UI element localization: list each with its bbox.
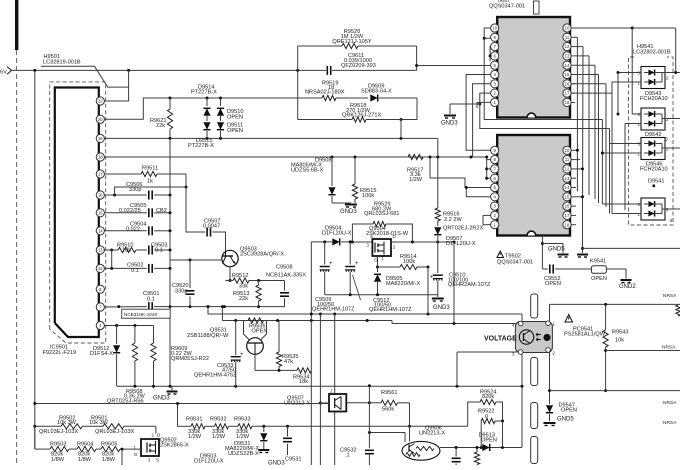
wire M2 output: [662, 118, 680, 120]
label NRSA right 2: [663, 400, 677, 406]
svg-text:12: 12: [565, 44, 570, 49]
IC9501 pin 16: [96, 191, 104, 199]
svg-text:SD883-04-X: SD883-04-X: [361, 88, 392, 94]
T9502 right pin 10: [563, 146, 571, 154]
wire Q9507 base col: [319, 314, 322, 465]
wire cap bottom rail: [170, 305, 285, 308]
T9502 right pin 15: [563, 193, 571, 201]
svg-text:NCB11AK-335X: NCB11AK-335X: [266, 273, 306, 279]
power input bar: [15, 0, 18, 50]
wire opto pin1 up: [549, 304, 551, 321]
wire T9501 pin4 stub: [466, 75, 491, 151]
wire mid rail to opto: [368, 384, 371, 387]
svg-text:15: 15: [565, 194, 570, 199]
svg-text:R9543: R9543: [612, 330, 628, 336]
wire left drop to bottom: [34, 70, 36, 449]
wire R9561 corner: [408, 403, 468, 428]
svg-text:MA8220/M/-X: MA8220/M/-X: [386, 281, 420, 287]
svg-text:0: 0: [485, 414, 488, 420]
T9501 left pin 2: [491, 89, 499, 97]
transformer T9501 body: [489, 0, 570, 118]
ground GND5 pair: [542, 244, 588, 258]
svg-text:QEHR1HM-476Z: QEHR1HM-476Z: [194, 372, 237, 378]
svg-text:OPEN: OPEN: [561, 408, 577, 414]
IC9501 pin 17: [96, 170, 104, 178]
wire main B+ rail: [12, 69, 417, 72]
diode D9505: [374, 267, 421, 295]
wire M3 pin3 feed: [610, 143, 642, 145]
wire T9502 right stubs: [571, 149, 584, 225]
wire Q9504 gate: [376, 256, 379, 269]
wire T9501 pin2 col: [480, 93, 610, 128]
svg-text:OPEN: OPEN: [481, 437, 497, 443]
capacitor C9508: [266, 265, 306, 307]
label NRSA right 0: [663, 293, 677, 299]
IC9501 pin 4: [96, 321, 104, 329]
wire Q9507 base stub: [320, 402, 329, 404]
wire D9504 feed: [310, 242, 313, 371]
svg-text:UDZS22B-X: UDZS22B-X: [228, 451, 259, 457]
svg-text:33k: 33k: [239, 284, 248, 290]
label NRSA right 3: [663, 420, 677, 426]
wire C9507 to Q9503: [212, 232, 225, 251]
diode D9515: [188, 122, 224, 149]
T9502 left pin 8: [491, 156, 499, 164]
svg-text:R9511: R9511: [142, 166, 158, 172]
label D9546: [640, 162, 668, 173]
resistor R9531: [186, 417, 205, 440]
resistor R9561: [369, 390, 409, 413]
svg-text:QQS0347-001: QQS0347-001: [497, 260, 533, 266]
ground GND3 left-mid: [332, 203, 357, 215]
resistor R9520: [298, 29, 417, 49]
wire T9501 pin8 stub: [484, 37, 490, 39]
svg-text:+: +: [240, 352, 244, 358]
svg-text:330p: 330p: [175, 288, 187, 294]
wire D9509 output down: [400, 120, 402, 139]
resistor R9522: [478, 409, 504, 448]
wire pin20 feedback: [104, 97, 297, 120]
svg-text:1/2W: 1/2W: [188, 434, 202, 440]
diode module D9546: [638, 138, 670, 160]
wire T9502 pins 8-7-6 bus: [485, 156, 490, 180]
wire R9503 rail: [35, 426, 50, 449]
svg-text:+: +: [430, 275, 434, 281]
diode D9514: [191, 85, 224, 121]
svg-text:OPEN: OPEN: [227, 114, 243, 120]
svg-text:NRSA: NRSA: [663, 400, 677, 406]
svg-text:10k: 10k: [615, 338, 624, 344]
resistor R9532: [205, 417, 229, 440]
wire Q9504 source rail: [351, 241, 373, 244]
T9501 left pin 8: [491, 33, 499, 41]
wire T9501 pin3 col: [473, 84, 491, 157]
T9502 left pin 9: [491, 146, 499, 154]
wire Q9531 top rail: [222, 319, 392, 322]
resistor R9501: [89, 415, 156, 435]
resistor R9508b: [151, 326, 156, 387]
dashed board boundary: [16, 50, 18, 465]
ground GND3 under C9510: [432, 299, 451, 312]
svg-text:12: 12: [98, 266, 103, 271]
T9501 right pin 15: [563, 70, 571, 78]
wire T9501 pin7 col: [489, 47, 492, 58]
svg-text:S: S: [370, 234, 373, 239]
resistor R9621: [150, 98, 173, 138]
wire opto vcc riser: [453, 242, 455, 324]
T9502 right pin 12: [563, 165, 571, 173]
IC9501 pin 7: [96, 303, 104, 311]
svg-text:QRL03EJ-103X: QRL03EJ-103X: [39, 429, 78, 435]
svg-text:QEHR1HM-107Z: QEHR1HM-107Z: [369, 307, 412, 313]
svg-text:D1FS4-X: D1FS4-X: [90, 351, 113, 357]
diode module D9543: [638, 67, 670, 89]
svg-text:D1FL20U-X: D1FL20U-X: [446, 241, 476, 247]
T9501 right pin 11: [563, 33, 571, 41]
connector H9541 dashed box: [629, 44, 674, 225]
transistor Q9531: [187, 321, 267, 355]
svg-text:T9501: T9501: [497, 0, 510, 3]
svg-text:F9222L-F219: F9222L-F219: [43, 350, 77, 356]
wire Q9503 emitter: [229, 267, 232, 282]
T9502 right pin 14: [563, 183, 571, 191]
svg-text:22k: 22k: [239, 296, 248, 302]
T9502 left pin 2: [491, 211, 499, 219]
svg-text:NCB31HK-104X: NCB31HK-104X: [124, 312, 157, 317]
wire module M1 pin1 feed: [612, 81, 641, 83]
svg-text:NRSA: NRSA: [663, 420, 677, 426]
svg-text:GND3: GND3: [441, 120, 458, 126]
T9501 left pin 10: [491, 24, 499, 32]
wire pin13 row: [104, 249, 113, 252]
capacitor C9503: [149, 242, 170, 254]
wire R9520 right leg: [415, 46, 418, 70]
transistor Q9506 oval: [402, 426, 445, 461]
IC9501 pin 18: [96, 153, 104, 161]
wire Q9507 collector col: [334, 314, 336, 465]
wire pin7 row: [104, 305, 146, 308]
capacitor C9505: [119, 203, 170, 217]
IC9501 pin 20: [96, 115, 104, 123]
svg-text:1/2W: 1/2W: [212, 434, 226, 440]
wire T9502 bottom drop: [541, 236, 544, 270]
svg-text:.1: .1: [345, 452, 350, 458]
svg-text:14: 14: [565, 185, 570, 190]
wire opto top rail: [550, 303, 680, 306]
svg-text:GND5: GND5: [557, 416, 574, 422]
wire R9522 down: [502, 421, 504, 448]
wire opto drop: [521, 314, 524, 448]
wire R9512 rail: [257, 279, 284, 282]
svg-text:R9533: R9533: [234, 417, 250, 423]
svg-text:C9531: C9531: [285, 456, 301, 462]
T9501 right pin 13: [563, 52, 571, 60]
T9502 left pin 3: [491, 202, 499, 210]
wire T9501 right pin3 drop: [571, 84, 606, 207]
resistor R9508a: [132, 326, 137, 387]
label NRSA right 1: [662, 345, 676, 351]
wire M2 pin1 feed: [625, 123, 641, 125]
T9501 right pin 14: [563, 61, 571, 69]
svg-text:22k: 22k: [156, 123, 165, 129]
T9501 right pin 17: [563, 89, 571, 97]
svg-text:17: 17: [98, 172, 103, 177]
T9502 left pin 1: [491, 221, 499, 229]
svg-text:13: 13: [565, 54, 570, 59]
svg-text:17: 17: [565, 91, 570, 96]
T9502 right pin 13: [563, 174, 571, 182]
svg-text:QRL03EJ-103X: QRL03EJ-103X: [95, 429, 134, 435]
svg-text:PS2581AL1/QW: PS2581AL1/QW: [564, 332, 606, 338]
svg-text:GND3: GND3: [340, 209, 357, 215]
label R9609: [171, 346, 209, 362]
svg-text:R9512: R9512: [232, 273, 248, 279]
wire Q9504 drain rail: [391, 241, 456, 244]
capacitor C9506: [126, 182, 170, 200]
diode D9512: [90, 326, 120, 387]
svg-text:10: 10: [565, 26, 570, 31]
capacitor C9510: [430, 242, 491, 297]
svg-text:16: 16: [565, 204, 570, 209]
svg-text:1/8W: 1/8W: [102, 457, 116, 463]
wire module bus d: [611, 82, 613, 214]
op-amp IC9501 body: [55, 88, 99, 338]
svg-text:560k: 560k: [382, 407, 394, 413]
svg-text:330p: 330p: [129, 187, 141, 193]
svg-text:0.022/25: 0.022/25: [119, 208, 141, 214]
svg-text:VOLTAGE: VOLTAGE: [484, 336, 517, 343]
svg-text:R9531: R9531: [186, 417, 202, 423]
wire K9541 to GND2: [606, 269, 626, 279]
svg-text:13: 13: [98, 248, 103, 253]
svg-text:+: +: [329, 261, 333, 267]
IC9501 pin 14: [96, 227, 104, 235]
wire pin18 rail: [104, 156, 487, 159]
svg-text:15: 15: [565, 72, 570, 77]
transistor Q9504: [366, 226, 409, 263]
capacitor C9532: [340, 386, 374, 465]
svg-text:10: 10: [492, 26, 497, 31]
wire opto pin4 rail: [392, 321, 519, 326]
ground GND3 under D9531: [258, 450, 285, 466]
resistor R9535: [276, 321, 298, 371]
wire M4 output: [662, 209, 680, 223]
capacitor C9520: [172, 260, 195, 307]
wire pin12 row: [104, 250, 146, 270]
capacitor C9534: [452, 448, 461, 466]
T9502 left pin 6: [491, 174, 499, 182]
wire Q9503 left row: [170, 259, 222, 262]
svg-text:14: 14: [98, 228, 103, 233]
svg-text:820k: 820k: [482, 394, 494, 400]
svg-text:S: S: [156, 458, 159, 463]
wire module output 1: [662, 28, 680, 74]
wire snubber loop: [298, 98, 417, 121]
svg-text:OPEN: OPEN: [545, 281, 561, 287]
svg-text:LC32802-001B: LC32802-001B: [633, 49, 671, 55]
wire Q9506 base rung: [368, 431, 405, 442]
svg-text:15: 15: [98, 210, 103, 215]
diode module D9542: [638, 108, 670, 130]
IC9501 pin 13: [96, 246, 104, 254]
wire pin4 row: [104, 324, 153, 327]
capacitor C9512: [345, 242, 360, 300]
resistor R9518: [298, 103, 401, 122]
svg-text:PT227B-X: PT227B-X: [188, 143, 214, 149]
svg-text:16: 16: [98, 193, 103, 198]
diode D9513: [479, 432, 497, 451]
wire feedback rail: [207, 305, 523, 315]
label PC9541: [564, 315, 606, 338]
svg-text:GND3: GND3: [433, 305, 450, 311]
wire module bus a: [617, 73, 619, 115]
svg-text:11: 11: [565, 157, 570, 162]
svg-text:OPEN: OPEN: [591, 276, 607, 282]
resistor R9514: [378, 254, 430, 270]
wire Q9506 collector: [409, 426, 411, 441]
wire pin15 row: [104, 212, 146, 214]
svg-text:QRL03SJ-681: QRL03SJ-681: [364, 211, 399, 217]
wire rail link: [221, 305, 224, 320]
diode D9547: [546, 403, 577, 422]
resistor R9515: [352, 157, 376, 203]
svg-text:FCH20A10: FCH20A10: [640, 96, 668, 102]
T9502 right pin 11: [563, 156, 571, 164]
wire sec gnd rail: [581, 212, 680, 250]
svg-text:PT227B-X: PT227B-X: [191, 90, 217, 96]
svg-text:+: +: [355, 261, 359, 267]
svg-text:18: 18: [565, 100, 570, 105]
wire pin22 to B+: [104, 70, 128, 101]
T9501 left pin 5: [491, 61, 499, 69]
svg-text:QFZ0209-393: QFZ0209-393: [341, 63, 376, 69]
diode D9510: [203, 98, 243, 121]
svg-text:2SB1188/QR/-W: 2SB1188/QR/-W: [187, 333, 229, 339]
svg-text:1/8W: 1/8W: [51, 457, 65, 463]
label C9512: [369, 298, 412, 313]
wire T9501 right pin2 drop: [571, 92, 612, 94]
svg-text:QQS0347-001: QQS0347-001: [489, 3, 525, 9]
svg-text:22: 22: [98, 99, 103, 104]
ground GND3 top: [441, 103, 481, 127]
optocoupler PC9541: [512, 321, 556, 357]
relay K9541: [590, 258, 607, 282]
resistor R9516: [435, 157, 483, 231]
svg-text:0.0047: 0.0047: [203, 224, 220, 230]
svg-text:QRM05SJ-R22: QRM05SJ-R22: [171, 356, 209, 362]
wire T9501 pin6 col: [489, 56, 491, 61]
diode D9507: [434, 221, 476, 247]
svg-text:QRK126J-271X: QRK126J-271X: [342, 113, 381, 119]
svg-text:0.1: 0.1: [131, 268, 139, 274]
wire T9501 pin1 stub: [477, 102, 491, 108]
svg-text:100k: 100k: [362, 193, 374, 199]
T9502 right pin 16: [563, 202, 571, 210]
wire R9534 down: [310, 370, 312, 465]
svg-text:QRE121J-105Y: QRE121J-105Y: [332, 39, 371, 45]
wire low rail right: [550, 390, 680, 392]
diode D9511: [203, 122, 243, 138]
svg-text:11: 11: [565, 35, 570, 40]
svg-text:6V: 6V: [0, 70, 7, 76]
T9501 right pin 16: [563, 80, 571, 88]
wire R9511 to C9507: [185, 174, 206, 232]
svg-text:FCH20A10: FCH20A10: [640, 167, 668, 173]
resistor R9543: [603, 304, 628, 392]
svg-text:47k: 47k: [284, 359, 293, 365]
wire Q9506 out rail: [440, 446, 522, 449]
T9501 left pin 1: [491, 98, 499, 106]
T9502 right pin 18: [563, 221, 571, 229]
wire pin19 rail: [104, 137, 437, 157]
resistor R9524: [468, 389, 503, 426]
wire R9514 to feedback: [427, 267, 429, 314]
svg-text:10k 3W: 10k 3W: [57, 420, 77, 426]
wire pin10 top rail: [571, 27, 675, 30]
wire Q9531 base row: [255, 354, 297, 372]
wire R9531 rail: [178, 404, 192, 427]
svg-text:1/2W: 1/2W: [409, 177, 423, 183]
resistor R9512: [226, 273, 259, 290]
svg-text:1k: 1k: [147, 179, 153, 185]
resistor R9510: [112, 242, 147, 253]
T9502 right pin 17: [563, 211, 571, 219]
capacitor C9509: [312, 242, 355, 313]
svg-text:D1FL20U-X: D1FL20U-X: [194, 458, 224, 464]
wire R9543 out rail: [606, 350, 680, 352]
wire module bus c: [601, 120, 604, 205]
transistor Q9507: [284, 388, 346, 411]
ground GND2: [619, 280, 636, 290]
capacitor C9552: [542, 265, 591, 288]
resistor R9505: [96, 441, 141, 463]
wire cap bus vertical: [169, 138, 172, 386]
resistor R9511: [104, 166, 186, 185]
T9501 right pin 10: [563, 24, 571, 32]
wire R9520 left leg: [297, 46, 299, 98]
svg-text:16: 16: [565, 81, 570, 86]
ground GND3 under R9508: [153, 386, 178, 401]
IC9501 pin 8: [96, 285, 104, 293]
svg-text:18: 18: [565, 222, 570, 227]
capacitor C9533: [194, 321, 244, 387]
IC U-IC9501 dashed outline: [50, 82, 106, 343]
ground GND5 low: [544, 416, 575, 425]
svg-text:10: 10: [565, 148, 570, 153]
label R9508: [107, 389, 146, 405]
label D9543: [640, 91, 668, 102]
T9501 left pin 3: [491, 80, 499, 88]
svg-text:GND3: GND3: [268, 460, 285, 465]
label VOLTAGE: [484, 336, 517, 343]
svg-text:C9508: C9508: [276, 265, 292, 271]
wire bottom rail: [117, 385, 522, 388]
label H9501: [41, 54, 129, 87]
wire M3 output: [662, 147, 680, 149]
svg-text:10k: 10k: [122, 247, 131, 253]
wire T9502 pin2 stub: [483, 214, 491, 216]
svg-text:OPEN: OPEN: [227, 128, 243, 134]
label IC9501: [43, 345, 77, 356]
wire M4 pin1 feed: [612, 213, 641, 215]
svg-text:20: 20: [98, 117, 103, 122]
zener D9531: [225, 426, 267, 457]
wire T9502 pin4 stub: [465, 186, 491, 197]
wire module M1 pin3 feed: [617, 71, 642, 74]
T9501 right pin 18: [563, 98, 571, 106]
resistor R9534: [293, 368, 311, 385]
T9501 left pin 6: [491, 52, 499, 60]
